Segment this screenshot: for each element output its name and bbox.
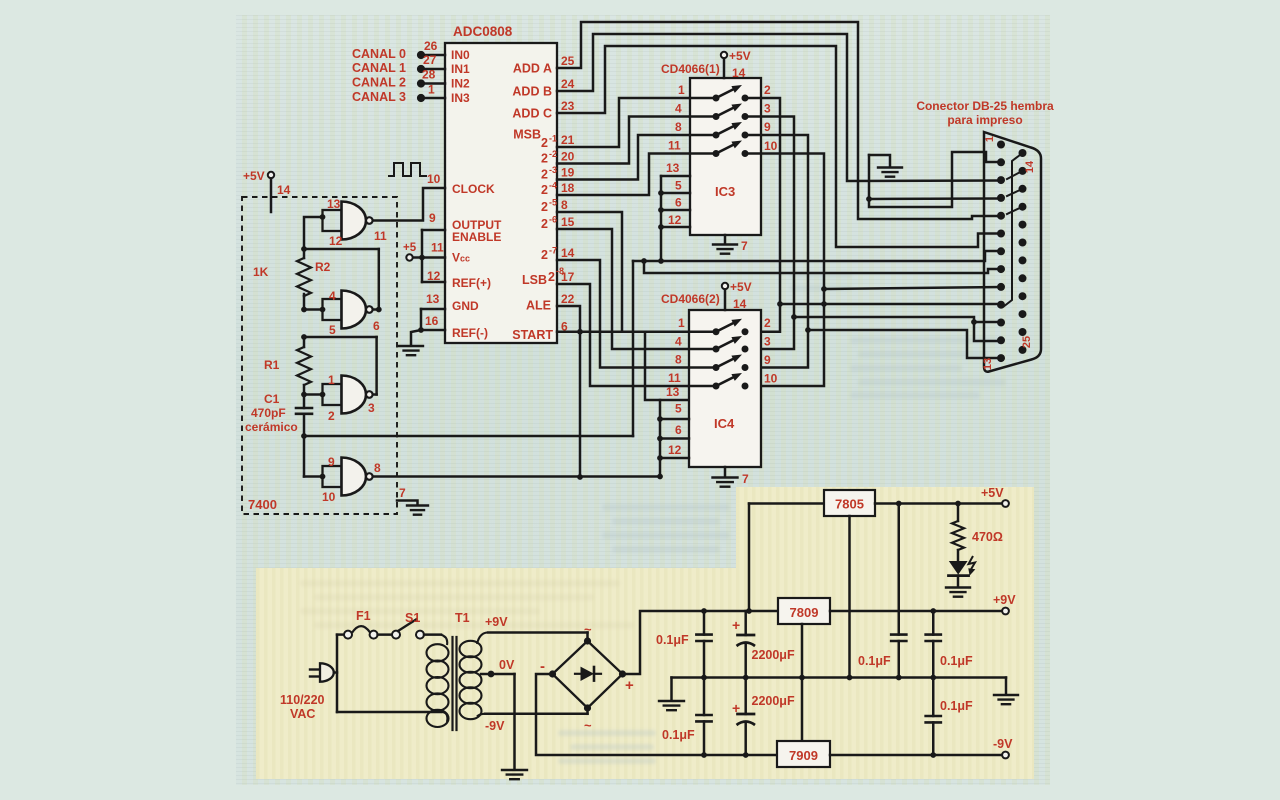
svg-text:ADD B: ADD B	[512, 85, 552, 99]
+5V supply IC3 pin14	[721, 52, 727, 58]
wire 2^-1 pin21 to IC3 pin1	[557, 98, 690, 147]
svg-text:Conector DB-25 hembra: Conector DB-25 hembra	[916, 99, 1054, 113]
wire gate4 output to IC4 control net	[373, 475, 660, 478]
svg-text:CANAL 2: CANAL 2	[352, 76, 406, 90]
svg-text:7: 7	[741, 239, 748, 253]
svg-text:2: 2	[541, 248, 548, 262]
capacitor 0.1uF C2	[703, 611, 706, 635]
ground LED	[946, 586, 970, 588]
svg-text:14: 14	[277, 183, 291, 197]
wire ADD A pin25 top bus to DB25 pin5	[557, 22, 1001, 219]
svg-text:-: -	[540, 658, 545, 675]
svg-text:0.1μF: 0.1μF	[940, 699, 973, 713]
svg-text:para impreso: para impreso	[947, 113, 1022, 127]
svg-text:+5V: +5V	[981, 486, 1004, 500]
svg-text:2: 2	[764, 316, 771, 330]
svg-text:1: 1	[984, 136, 996, 142]
svg-text:ALE: ALE	[526, 299, 551, 313]
svg-text:2: 2	[541, 136, 548, 150]
svg-text:14: 14	[732, 66, 746, 80]
svg-text:1: 1	[428, 83, 435, 97]
svg-text:-4: -4	[549, 181, 557, 191]
svg-text:ADC0808: ADC0808	[453, 24, 513, 39]
wire ADD B pin24 top bus to DB25 pin3	[557, 34, 1001, 181]
svg-text:27: 27	[423, 53, 437, 67]
svg-text:19: 19	[561, 166, 575, 180]
wire gate3 output feedback	[304, 336, 377, 339]
gate U2D pins 9,10 -> 8	[323, 466, 342, 487]
transformer T1 core	[451, 637, 453, 730]
svg-text:13: 13	[982, 358, 994, 370]
svg-text:28: 28	[422, 68, 436, 82]
svg-text:1: 1	[328, 373, 335, 387]
svg-text:IN1: IN1	[451, 62, 470, 76]
svg-text:+: +	[732, 617, 740, 633]
svg-text:~: ~	[584, 622, 592, 637]
svg-text:2: 2	[541, 183, 548, 197]
wire 7809 ground	[801, 624, 804, 741]
svg-text:8: 8	[374, 461, 381, 475]
svg-text:3: 3	[368, 401, 375, 415]
wire 2^-2 pin20 to IC3 pin4	[557, 117, 690, 164]
wire ADD C pin23 top bus to DB25 pin6	[557, 46, 1001, 247]
svg-text:8: 8	[675, 120, 682, 134]
svg-text:START: START	[512, 328, 553, 342]
IC ADC0808 U1	[445, 43, 557, 343]
svg-text:ADD A: ADD A	[513, 62, 552, 76]
svg-text:7809: 7809	[790, 605, 819, 620]
svg-text:REF(-): REF(-)	[452, 326, 488, 340]
svg-text:GND: GND	[452, 299, 479, 313]
svg-text:IN3: IN3	[451, 91, 470, 105]
wire 2^-3 pin19 to IC3 pin8	[557, 135, 690, 180]
svg-text:REF(+): REF(+)	[452, 276, 491, 290]
svg-text:3: 3	[764, 102, 771, 116]
svg-text:-6: -6	[549, 215, 557, 225]
svg-text:22: 22	[561, 292, 575, 306]
svg-text:0V: 0V	[499, 658, 515, 672]
svg-text:R1: R1	[264, 358, 280, 372]
svg-text:2: 2	[541, 200, 548, 214]
svg-text:7805: 7805	[835, 497, 864, 512]
wire control net branch to DB25 pin8	[641, 258, 647, 264]
svg-text:9: 9	[764, 120, 771, 134]
wire ground net to DB25 pin2	[869, 152, 1001, 207]
wire +5 node to pins 9,11,12	[421, 230, 424, 282]
IC 7400 dashed outline	[242, 197, 397, 514]
ground 7400 pin7	[397, 501, 418, 506]
svg-text:+9V: +9V	[993, 593, 1016, 607]
wire IC3 control pins 13,5,6,12 bus	[660, 176, 663, 261]
wire IC3 out10 / IC4 out10 to DB25 pin9	[748, 154, 824, 387]
svg-text:25: 25	[1021, 336, 1033, 348]
svg-text:7: 7	[742, 472, 749, 486]
ground IC3 pin7	[724, 235, 727, 244]
svg-text:0.1μF: 0.1μF	[662, 728, 695, 742]
svg-text:14: 14	[561, 246, 575, 260]
svg-text:LSB: LSB	[522, 273, 547, 287]
svg-text:2: 2	[328, 409, 335, 423]
svg-text:cerámico: cerámico	[245, 420, 298, 434]
svg-text:10: 10	[427, 172, 441, 186]
wire bridge plus to +9V input rail	[623, 611, 779, 674]
wire 2^-8 pin17 to IC4 pin11	[557, 284, 690, 386]
svg-text:ADD C: ADD C	[512, 107, 552, 121]
svg-text:6: 6	[373, 319, 380, 333]
svg-text:3: 3	[764, 335, 771, 349]
svg-text:4: 4	[329, 289, 336, 303]
svg-text:1: 1	[678, 316, 685, 330]
svg-text:~: ~	[584, 718, 592, 733]
wire DB25 internal pin17	[1007, 207, 1023, 214]
wire 2^-4 pin18 to IC3 pin11	[557, 154, 690, 196]
svg-text:2200μF: 2200μF	[752, 648, 795, 662]
switch SW2 IC4	[689, 348, 712, 351]
svg-text:13: 13	[327, 197, 341, 211]
svg-text:10: 10	[764, 372, 778, 386]
svg-text:12: 12	[427, 269, 441, 283]
svg-text:-2: -2	[549, 149, 557, 159]
switch SW3 IC3	[690, 134, 712, 137]
svg-text:V: V	[452, 251, 460, 265]
svg-text:CD4066(2): CD4066(2)	[661, 292, 720, 306]
resistor 470ohm	[957, 504, 960, 522]
svg-text:+5: +5	[403, 242, 417, 254]
svg-text:IC3: IC3	[715, 184, 735, 199]
svg-text:12: 12	[668, 443, 682, 457]
ground ADC	[399, 345, 423, 347]
DB25 right column pins 14-25	[1019, 149, 1027, 157]
wire START pin6 to IC4 pin13	[557, 332, 690, 400]
svg-text:11: 11	[668, 139, 681, 153]
wire gate1 output to CLOCK pin 10	[373, 188, 445, 221]
DB25 left column pins 1-13	[997, 141, 1005, 149]
svg-text:5: 5	[329, 323, 336, 337]
svg-text:6: 6	[675, 196, 682, 210]
switch SW2 IC3	[690, 115, 712, 118]
svg-text:2: 2	[541, 168, 548, 182]
svg-text:2: 2	[541, 152, 548, 166]
svg-text:9: 9	[764, 353, 771, 367]
wire plug to fuse and transformer	[334, 671, 337, 674]
svg-text:7400: 7400	[248, 497, 277, 512]
svg-text:-7: -7	[549, 246, 557, 256]
+5V supply IC4 pin14	[722, 283, 728, 289]
LED D2	[949, 561, 968, 575]
svg-text:5: 5	[675, 179, 682, 193]
svg-text:MSB: MSB	[513, 128, 541, 142]
ground rail mid	[672, 676, 1007, 679]
svg-text:IN2: IN2	[451, 77, 470, 91]
svg-text:CANAL 0: CANAL 0	[352, 47, 406, 61]
wire 7805 ground	[848, 516, 851, 678]
svg-text:T1: T1	[455, 611, 470, 625]
regulator 7909	[777, 741, 830, 767]
wire bridge minus to negative rail	[536, 674, 777, 755]
ground 0V	[502, 769, 527, 771]
svg-text:+5V: +5V	[243, 169, 265, 183]
svg-text:8: 8	[561, 198, 568, 212]
LED arrows	[969, 556, 976, 571]
svg-text:CANAL 3: CANAL 3	[352, 90, 406, 104]
svg-text:-9V: -9V	[993, 737, 1013, 751]
wire C1 node to IC3 control net	[304, 435, 633, 438]
wire DB25 internal pin16	[1007, 189, 1023, 196]
switch SW3 IC4	[689, 366, 712, 369]
capacitor 0.1uF C3	[703, 678, 706, 716]
svg-text:-1: -1	[549, 134, 557, 144]
svg-text:C1: C1	[264, 392, 280, 406]
svg-text:9: 9	[429, 211, 436, 225]
svg-text:24: 24	[561, 77, 575, 91]
svg-text:16: 16	[425, 314, 439, 328]
svg-text:+5V: +5V	[730, 280, 752, 294]
switch SW4 IC3	[690, 152, 712, 155]
svg-text:+9V: +9V	[485, 615, 508, 629]
fuse F1	[344, 631, 352, 639]
wire CANAL inputs	[417, 51, 425, 59]
svg-text:cc: cc	[460, 254, 470, 264]
gate U2B pins 4,5 -> 6	[323, 299, 342, 320]
svg-text:23: 23	[561, 99, 575, 113]
svg-text:ENABLE: ENABLE	[452, 230, 501, 244]
svg-text:17: 17	[561, 270, 575, 284]
svg-text:CANAL 1: CANAL 1	[352, 61, 406, 75]
svg-text:13: 13	[666, 385, 680, 399]
wire control net to DB25 pin7	[633, 251, 1001, 261]
svg-text:CD4066(1): CD4066(1)	[661, 62, 720, 76]
svg-text:4: 4	[675, 102, 682, 116]
svg-text:1K: 1K	[253, 265, 269, 279]
wire IC3 out9 / IC4 out9 to DB25 pin13	[748, 135, 808, 368]
svg-text:110/220: 110/220	[280, 693, 325, 707]
svg-text:25: 25	[561, 54, 575, 68]
ground node right of IC3	[869, 155, 890, 167]
wire 2^-5 pin8 to IC4 pin1	[557, 212, 690, 332]
regulator 7805	[748, 504, 751, 612]
svg-text:+: +	[625, 677, 634, 694]
svg-text:1: 1	[678, 83, 685, 97]
IC CD4066(1) IC3	[690, 78, 761, 235]
svg-text:4: 4	[675, 335, 682, 349]
capacitor 2200uF C5	[744, 678, 747, 715]
svg-text:26: 26	[424, 39, 438, 53]
svg-text:10: 10	[764, 139, 778, 153]
svg-text:IC4: IC4	[714, 416, 735, 431]
svg-text:13: 13	[426, 292, 440, 306]
switch SW1 IC3	[690, 97, 712, 100]
svg-text:12: 12	[668, 213, 682, 227]
svg-text:11: 11	[374, 229, 387, 243]
capacitor 2200uF C4	[744, 611, 747, 635]
svg-text:S1: S1	[405, 611, 420, 625]
wire -9V winding to bridge	[485, 713, 588, 716]
wire 2^-7 pin14 to IC4 pin8	[557, 260, 690, 368]
wire DB25 internal pin14 routing	[1003, 153, 1023, 307]
switch S1	[392, 631, 400, 639]
wire ALE pin22 join START	[557, 306, 580, 477]
gate U2A pins 13,12 -> 11	[323, 210, 342, 231]
switch SW4 IC4	[689, 385, 712, 388]
svg-text:IN0: IN0	[451, 48, 470, 62]
svg-text:11: 11	[431, 241, 444, 255]
resistor R1	[303, 337, 306, 347]
svg-text:470Ω: 470Ω	[972, 530, 1003, 544]
svg-text:2200μF: 2200μF	[752, 694, 795, 708]
svg-text:-5: -5	[549, 198, 557, 208]
capacitor 0.1uF C8	[932, 678, 935, 717]
svg-text:0.1μF: 0.1μF	[858, 654, 891, 668]
svg-text:18: 18	[561, 181, 575, 195]
AC plug	[310, 668, 320, 670]
svg-text:7: 7	[399, 486, 406, 500]
IC CD4066(2) IC4	[689, 310, 761, 467]
svg-text:8: 8	[675, 353, 682, 367]
svg-text:12: 12	[329, 234, 343, 248]
svg-text:5: 5	[675, 402, 682, 416]
svg-text:+: +	[732, 700, 740, 716]
switch SW1 IC4	[689, 331, 712, 334]
svg-text:-3: -3	[549, 165, 557, 175]
svg-text:20: 20	[561, 150, 575, 164]
svg-text:11: 11	[668, 371, 681, 385]
wire IC3 out3 / IC4 out3 to DB25 pins 11,12	[748, 117, 794, 350]
svg-text:2: 2	[541, 217, 548, 231]
svg-text:0.1μF: 0.1μF	[656, 633, 689, 647]
resistor R2 1K	[297, 258, 311, 296]
wire DB25 internal pin15	[1007, 171, 1023, 179]
wire 0V centre tap to ground	[488, 671, 495, 678]
capacitor 0.1uF C7	[932, 611, 935, 635]
transformer T1 secondary	[460, 641, 482, 657]
capacitor 0.1uF C6	[898, 504, 901, 635]
svg-text:10: 10	[322, 490, 336, 504]
connector DB-25 J1	[984, 132, 1041, 372]
svg-text:+5V: +5V	[729, 49, 751, 63]
gate U2C pins 1,2 -> 3	[323, 384, 342, 405]
svg-text:7909: 7909	[789, 748, 818, 763]
clock square-wave symbol	[389, 163, 426, 176]
wire GND/REF(-) pins 13,16 to ground	[420, 309, 423, 330]
wire gate4 input tie	[303, 436, 306, 477]
svg-text:F1: F1	[356, 609, 371, 623]
svg-text:21: 21	[561, 133, 575, 147]
svg-text:6: 6	[675, 423, 682, 437]
wire 2^-6 pin15 to IC4 pin4	[557, 229, 690, 349]
svg-text:R2: R2	[315, 260, 331, 274]
svg-text:VAC: VAC	[290, 707, 315, 721]
wire +9V winding to bridge	[488, 631, 588, 634]
wire ground net branch to DB25 pin4	[866, 196, 872, 202]
svg-text:CLOCK: CLOCK	[452, 182, 495, 196]
svg-text:15: 15	[561, 215, 575, 229]
wire IC4 control pins bus	[659, 400, 662, 477]
svg-text:2: 2	[764, 83, 771, 97]
bridge rectifier D1	[553, 641, 623, 708]
+5V supply 7400 pin14	[268, 172, 274, 178]
capacitor C1 470pF	[303, 395, 306, 409]
svg-text:13: 13	[666, 161, 680, 175]
svg-text:0.1μF: 0.1μF	[940, 654, 973, 668]
svg-text:-9V: -9V	[485, 719, 505, 733]
wire IC3 out2 / IC4 out2 to DB25 pin10	[748, 98, 780, 332]
svg-text:14: 14	[733, 297, 747, 311]
svg-text:2: 2	[548, 270, 555, 284]
regulator 7809	[778, 598, 830, 624]
svg-text:9: 9	[328, 455, 335, 469]
svg-text:470pF: 470pF	[251, 406, 286, 420]
svg-text:14: 14	[1024, 160, 1036, 173]
ground IC4 pin7	[724, 467, 727, 477]
